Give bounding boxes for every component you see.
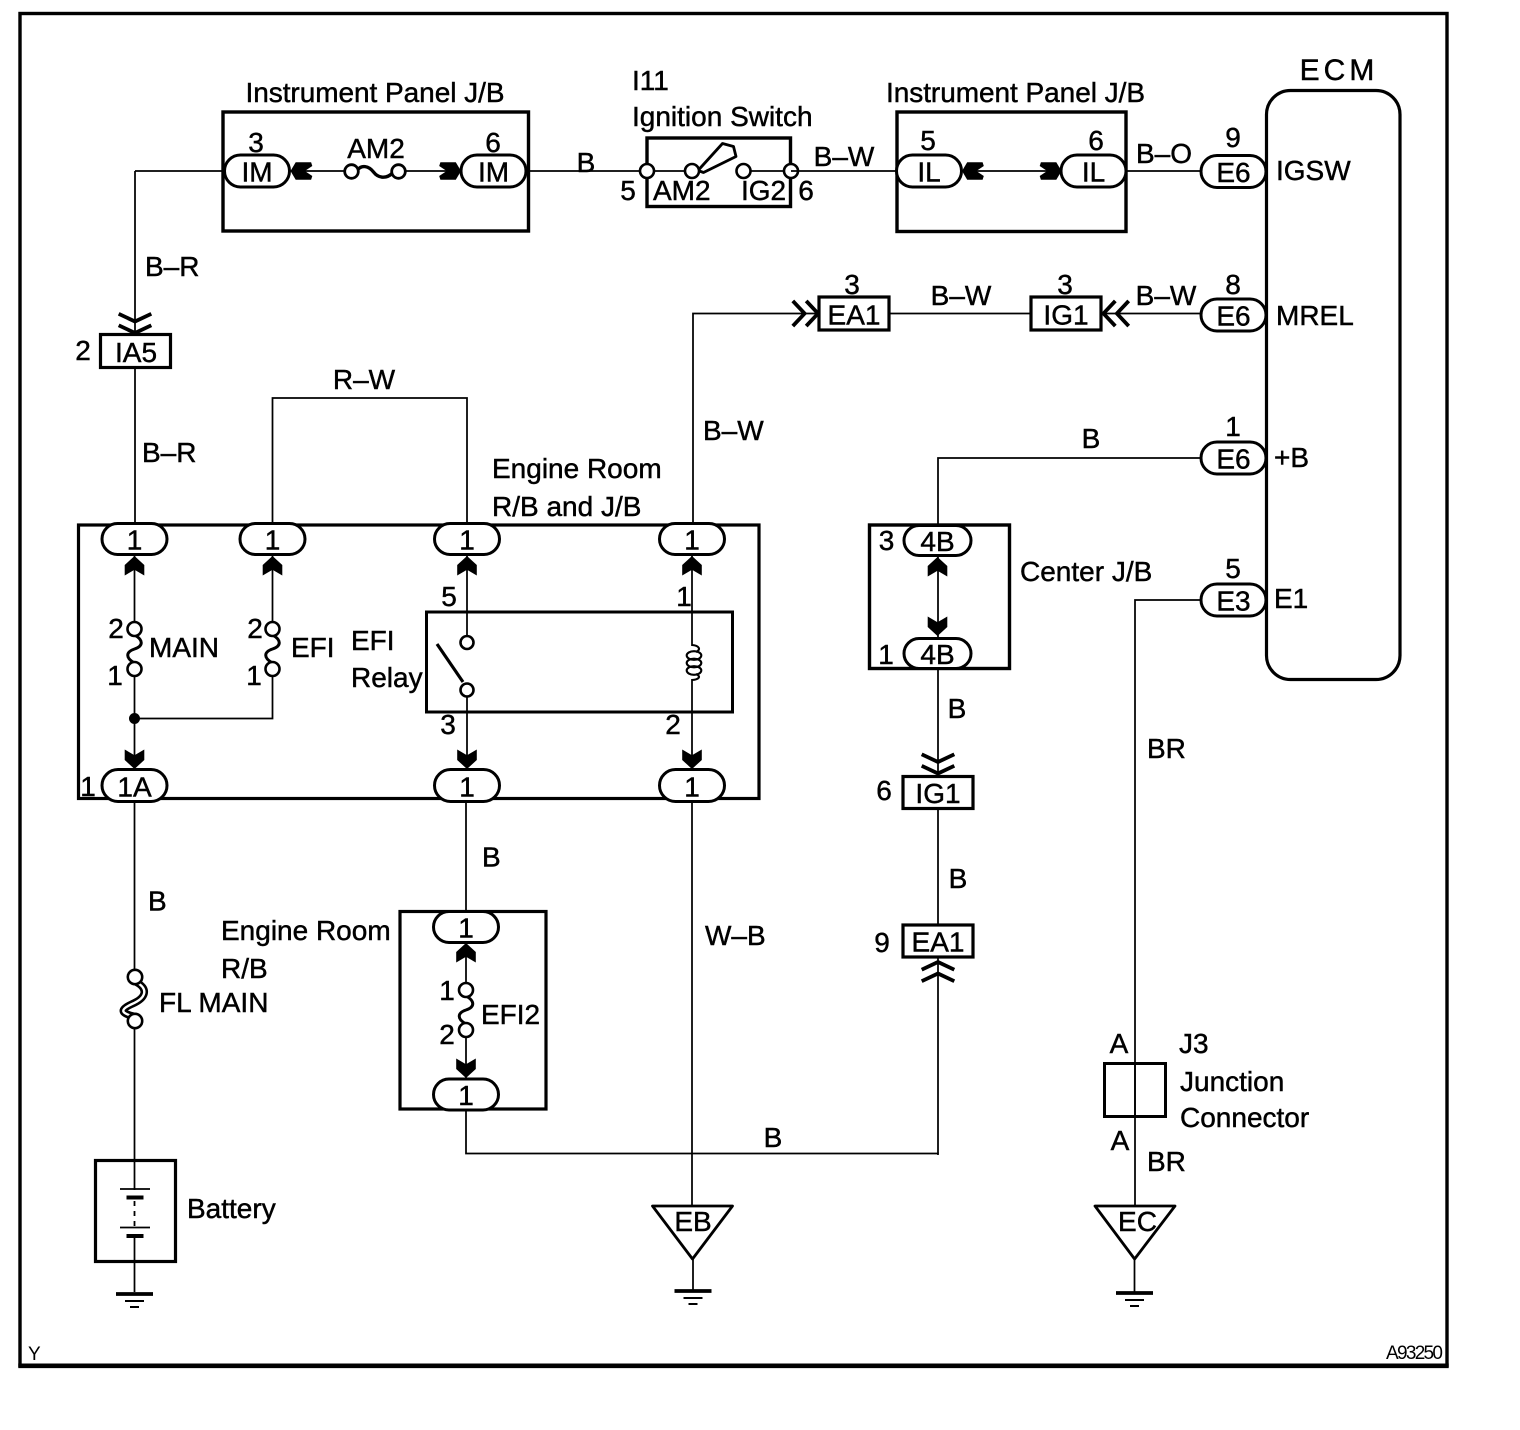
svg-text:B: B	[148, 886, 167, 917]
svg-text:1: 1	[878, 639, 894, 670]
wire W-B: J/B oval4b down to EB	[691, 802, 693, 1207]
svg-text:AM2: AM2	[347, 133, 405, 164]
svg-text:R/B and J/B: R/B and J/B	[492, 491, 641, 522]
internal wire: relay coil to oval4b	[691, 679, 693, 770]
chevrons into IA5	[119, 314, 152, 333]
svg-text:B–W: B–W	[1136, 280, 1197, 311]
fuse AM2	[345, 165, 406, 179]
connector oval IL pin 6	[1061, 155, 1126, 187]
connector oval IM pin 6	[461, 155, 526, 187]
fuse EFI	[266, 622, 280, 676]
junction dot	[129, 713, 140, 724]
svg-text:B–W: B–W	[931, 280, 992, 311]
internal wire between 4B ovals	[937, 556, 939, 637]
relay contact bottom	[461, 684, 474, 697]
relay coil	[687, 645, 702, 680]
svg-text:1: 1	[458, 1080, 474, 1111]
svg-text:1: 1	[459, 772, 475, 803]
wire: IM-left to B-R corner	[135, 170, 226, 172]
svg-text:3: 3	[440, 709, 456, 740]
svg-text:MAIN: MAIN	[149, 632, 219, 663]
wire: EC to ground	[1134, 1258, 1136, 1292]
internal wire: relay contact to oval3b	[466, 696, 468, 770]
svg-text:B: B	[577, 147, 596, 178]
connector arrow into IL-right	[1040, 162, 1062, 180]
svg-text:B–R: B–R	[142, 437, 196, 468]
wire B-O: IL to ECM IGSW	[1126, 170, 1202, 172]
svg-text:IM: IM	[241, 157, 272, 188]
svg-text:B: B	[482, 842, 501, 873]
svg-text:9: 9	[874, 927, 890, 958]
wire B: ECM +B to Center J/B	[938, 458, 1202, 526]
svg-text:Junction: Junction	[1180, 1066, 1284, 1097]
wire B-R: IA5 down to J/B oval	[134, 368, 136, 526]
wire B: IM pin6 to ignition switch	[526, 170, 647, 172]
svg-text:5: 5	[620, 175, 636, 206]
wire: EB to ground	[692, 1258, 694, 1290]
EFI2 top oval	[434, 912, 499, 943]
wire BR: ECM E1 down to EC ground	[1135, 600, 1202, 1206]
svg-text:Ignition Switch: Ignition Switch	[632, 101, 813, 132]
svg-text:1: 1	[107, 660, 123, 691]
svg-text:8: 8	[1225, 269, 1241, 300]
svg-text:1: 1	[684, 772, 700, 803]
connector mating arrow (top)	[456, 943, 476, 963]
internal wire: MAIN fuse to 1A oval	[134, 676, 136, 770]
wire inside J/B between IL ovals	[961, 170, 1061, 172]
svg-text:R/B: R/B	[221, 953, 268, 984]
chevrons into IG1	[1104, 301, 1129, 326]
connector oval E6 pin 1 (+B)	[1201, 442, 1266, 474]
svg-text:A: A	[1111, 1125, 1130, 1156]
svg-text:B–O: B–O	[1136, 138, 1192, 169]
svg-text:IG2: IG2	[741, 175, 786, 206]
connector mating arrow into top oval 2	[263, 556, 283, 576]
connector oval E6 pin 8 (MREL)	[1201, 299, 1266, 331]
svg-text:4B: 4B	[920, 526, 954, 557]
connector IG1 pin 6	[903, 777, 973, 809]
top oval 2 (EFI fuse)	[240, 524, 305, 555]
svg-text:ECM: ECM	[1300, 54, 1379, 87]
connector IG1 pin 3	[1031, 297, 1101, 330]
internal wire: oval4 to relay coil	[691, 555, 693, 646]
wire: FL MAIN to battery	[134, 1028, 136, 1190]
chevrons into EA1	[793, 301, 818, 326]
svg-text:3: 3	[879, 525, 895, 556]
fuse EFI2	[459, 983, 473, 1037]
svg-text:Relay: Relay	[351, 662, 423, 693]
svg-text:B–W: B–W	[703, 415, 764, 446]
top oval 1 (from IA5)	[102, 524, 167, 555]
svg-text:1: 1	[80, 771, 96, 802]
terminal 5 (left edge)	[640, 164, 654, 178]
svg-text:B–R: B–R	[145, 251, 199, 282]
connector mating arrow into oval 1A	[125, 750, 145, 770]
svg-text:1: 1	[439, 975, 455, 1006]
svg-text:2: 2	[75, 335, 91, 366]
svg-text:5: 5	[920, 125, 936, 156]
svg-text:EFI: EFI	[291, 632, 335, 663]
svg-text:IGSW: IGSW	[1276, 155, 1351, 186]
wire B-W: IG1 to ECM MREL	[1101, 313, 1202, 315]
svg-text:B: B	[948, 693, 967, 724]
svg-text:IG1: IG1	[915, 778, 960, 809]
bottom oval 3	[435, 770, 500, 802]
wire: IM pin3 oval to fuse AM2	[290, 170, 346, 172]
wire: IG2 terminal link	[743, 170, 791, 172]
svg-text:2: 2	[665, 709, 681, 740]
svg-text:5: 5	[1225, 553, 1241, 584]
junction connector J3 box	[1105, 1064, 1166, 1117]
svg-text:1: 1	[676, 581, 692, 612]
Instrument Panel J/B box (right)	[897, 112, 1126, 232]
svg-text:Connector: Connector	[1180, 1102, 1309, 1133]
svg-text:1: 1	[1225, 411, 1241, 442]
svg-text:E1: E1	[1274, 583, 1308, 614]
ground (EB)	[675, 1291, 712, 1304]
terminal 6 (right edge)	[784, 164, 798, 178]
svg-text:9: 9	[1225, 122, 1241, 153]
connector oval IM pin 3	[225, 155, 290, 187]
svg-text:4B: 4B	[920, 639, 954, 670]
svg-text:IL: IL	[917, 157, 940, 188]
svg-text:EA1: EA1	[912, 927, 965, 958]
Instrument Panel J/B box (left)	[223, 112, 529, 231]
Engine Room R/B box	[400, 912, 546, 1110]
Center J/B box	[870, 525, 1010, 669]
svg-text:AM2: AM2	[653, 175, 711, 206]
chevrons into EA1 (from below)	[922, 962, 955, 981]
relay switch blade	[437, 644, 463, 682]
svg-text:+B: +B	[1274, 442, 1309, 473]
wire R-W: loop from EFI fuse oval up and over to relay pin 5 oval	[273, 398, 468, 525]
terminal AM2	[685, 164, 699, 178]
internal wire: EFI fuse to junction	[135, 676, 273, 719]
svg-text:1: 1	[127, 525, 143, 556]
top oval 4 (relay coil)	[660, 524, 725, 555]
wire B-W: corner to EA1 connector	[693, 314, 819, 525]
4B bottom oval pin 1	[904, 639, 971, 669]
svg-text:EFI: EFI	[351, 625, 395, 656]
svg-text:1: 1	[458, 913, 474, 944]
relay contact top	[461, 636, 474, 649]
svg-text:3: 3	[1057, 269, 1073, 300]
svg-text:B–W: B–W	[814, 141, 875, 172]
connector oval E3 pin 5 (E1)	[1201, 584, 1266, 616]
wire: EA1 down to B riser	[937, 957, 939, 1154]
svg-text:6: 6	[876, 775, 892, 806]
wire B-R: down from IM pin3 to IA5	[134, 171, 136, 335]
svg-text:EB: EB	[674, 1206, 711, 1237]
connector arrow into IM-left	[291, 162, 313, 180]
svg-text:1: 1	[684, 525, 700, 556]
svg-text:Instrument Panel J/B: Instrument Panel J/B	[246, 77, 505, 108]
svg-text:EC: EC	[1118, 1206, 1157, 1237]
svg-text:6: 6	[485, 127, 501, 158]
svg-text:W–B: W–B	[705, 920, 766, 951]
svg-text:1: 1	[459, 525, 475, 556]
svg-text:IM: IM	[478, 157, 509, 188]
svg-text:2: 2	[108, 613, 124, 644]
ground triangle EC	[1095, 1206, 1175, 1259]
ground (EC)	[1116, 1293, 1153, 1306]
corner marks	[28, 1343, 1443, 1365]
wire: AM2 terminal link	[647, 170, 692, 172]
connector mating arrow (top)	[928, 557, 948, 577]
4B top oval pin 3	[904, 526, 971, 556]
wire: fuse AM2 to IM pin6 oval	[404, 170, 462, 172]
svg-text:B: B	[949, 863, 968, 894]
svg-text:A93250: A93250	[1386, 1343, 1443, 1364]
svg-text:B: B	[1082, 423, 1101, 454]
bottom oval 4	[660, 770, 725, 802]
svg-text:E6: E6	[1216, 444, 1250, 475]
svg-text:1A: 1A	[117, 772, 152, 803]
svg-text:J3: J3	[1179, 1028, 1209, 1059]
ignition switch I11 box	[647, 138, 791, 207]
svg-text:Engine Room: Engine Room	[492, 453, 662, 484]
wire: fuse EFI2 to bottom oval	[465, 1036, 467, 1082]
wire B: J/B oval3b down to EFI2	[465, 802, 467, 915]
svg-text:E6: E6	[1216, 157, 1250, 188]
svg-text:BR: BR	[1147, 733, 1186, 764]
svg-text:E3: E3	[1216, 586, 1250, 617]
internal wire: oval2 to EFI fuse	[272, 555, 274, 622]
svg-text:FL MAIN: FL MAIN	[159, 987, 268, 1018]
connector EA1 pin 9	[903, 925, 973, 957]
internal wire: oval3 to relay contact	[466, 555, 468, 636]
ECM body	[1267, 91, 1401, 680]
switch lever	[698, 144, 736, 173]
fusible link FL MAIN	[123, 970, 144, 1028]
wire: battery to ground	[134, 1236, 136, 1292]
wire B: 1A oval down to FL MAIN	[134, 802, 136, 971]
connector mating arrow into top oval 3	[457, 556, 477, 576]
wire B: Center J/B to IG1	[937, 668, 939, 777]
svg-text:Y: Y	[28, 1344, 41, 1365]
svg-text:5: 5	[441, 581, 457, 612]
svg-text:1: 1	[265, 525, 281, 556]
connector arrow into IM-right	[439, 162, 461, 180]
svg-text:R–W: R–W	[333, 364, 396, 395]
Engine Room R/B and J/B box	[79, 525, 760, 799]
connector IA5 pin 2	[101, 335, 171, 368]
wire B: IG1 to EA1	[937, 809, 939, 926]
svg-text:IA5: IA5	[115, 337, 157, 368]
chevrons into IG1	[922, 754, 955, 773]
connector oval E6 pin 9 (IGSW)	[1201, 156, 1266, 188]
connector mating arrow into bottom oval 4	[682, 750, 702, 770]
wire B-W: EA1 to IG1	[889, 313, 1031, 315]
top oval 3 (relay pin5)	[435, 524, 500, 555]
connector arrow into IL-left	[962, 162, 984, 180]
svg-text:6: 6	[798, 175, 814, 206]
connector EA1 pin 3	[819, 297, 889, 330]
internal wire: oval1 to MAIN fuse	[134, 555, 136, 622]
svg-text:MREL: MREL	[1276, 300, 1354, 331]
svg-text:A: A	[1110, 1028, 1129, 1059]
connector mating arrow into top oval 1	[125, 556, 145, 576]
svg-text:Center J/B: Center J/B	[1020, 556, 1152, 587]
svg-text:2: 2	[247, 613, 263, 644]
ground (battery)	[116, 1294, 153, 1307]
EFI relay box	[427, 612, 733, 712]
svg-text:BR: BR	[1147, 1146, 1186, 1177]
bottom oval 1A	[102, 770, 167, 802]
svg-text:EFI2: EFI2	[481, 999, 540, 1030]
svg-text:EA1: EA1	[828, 300, 881, 331]
battery cell plates	[120, 1189, 150, 1236]
wire: oval to fuse EFI2	[465, 940, 467, 984]
connector mating arrow (bottom)	[928, 617, 948, 637]
svg-text:3: 3	[844, 269, 860, 300]
battery box	[96, 1161, 176, 1262]
svg-text:6: 6	[1088, 125, 1104, 156]
svg-text:Instrument Panel J/B: Instrument Panel J/B	[886, 77, 1145, 108]
svg-text:3: 3	[248, 127, 264, 158]
svg-text:Engine Room: Engine Room	[221, 915, 391, 946]
EFI2 bottom oval	[434, 1079, 499, 1110]
terminal IG2	[737, 164, 751, 178]
svg-text:2: 2	[439, 1019, 455, 1050]
fuse MAIN	[128, 622, 142, 676]
connector oval IL pin 5	[897, 155, 962, 187]
ground triangle EB	[653, 1206, 733, 1259]
connector mating arrow into bottom oval 3	[457, 750, 477, 770]
wire B: EFI2 to EA1 riser	[466, 1110, 938, 1155]
border bottom emphasis	[18, 1364, 1448, 1369]
connector mating arrow into top oval 4	[682, 556, 702, 576]
svg-text:IL: IL	[1082, 157, 1105, 188]
connector mating arrow (bottom)	[456, 1059, 476, 1079]
svg-text:E6: E6	[1216, 301, 1250, 332]
wire B-W: ignition switch to J/B	[791, 170, 897, 172]
svg-text:I11: I11	[632, 65, 669, 96]
svg-text:IG1: IG1	[1043, 300, 1088, 331]
wire through J3 redrawn	[1134, 1063, 1136, 1117]
svg-text:B: B	[764, 1122, 783, 1153]
svg-text:1: 1	[246, 660, 262, 691]
svg-text:Battery: Battery	[187, 1193, 276, 1224]
